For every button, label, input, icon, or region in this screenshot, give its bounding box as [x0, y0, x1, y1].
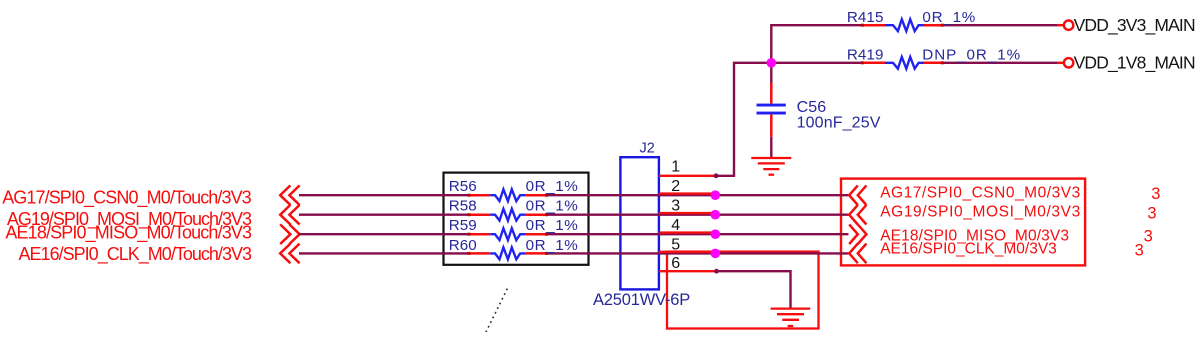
wire row4 right — [547, 233, 849, 235]
svg-text:4: 4 — [671, 217, 680, 234]
pin 2 stub — [659, 192, 715, 194]
off-page connector chevron row2 left — [280, 205, 299, 225]
resistor R58 — [449, 198, 578, 221]
svg-text:0R_1%: 0R_1% — [526, 198, 578, 215]
svg-text:3: 3 — [671, 198, 680, 215]
pin 4 stub — [659, 231, 715, 233]
wire row4 left (pin4 net) — [299, 233, 469, 235]
svg-text:3: 3 — [1135, 242, 1144, 260]
svg-text:A2501WV-6P: A2501WV-6P — [593, 291, 690, 309]
resistor R415 — [847, 9, 975, 31]
wire row5 right — [547, 252, 849, 254]
svg-text:0R_1%: 0R_1% — [922, 9, 975, 26]
wire R419 row — [771, 62, 862, 64]
wire junction down to C56 — [770, 63, 772, 83]
svg-text:AE16/SPI0_CLK_M0/Touch/3V3: AE16/SPI0_CLK_M0/Touch/3V3 — [19, 244, 253, 265]
svg-text:2: 2 — [671, 178, 680, 195]
svg-text:AG17/SPI0_CSN0_M0/3V3: AG17/SPI0_CSN0_M0/3V3 — [880, 185, 1080, 202]
wire pin6 to ground — [716, 271, 791, 307]
wire row3 right — [547, 213, 849, 215]
svg-text:VDD_1V8_MAIN: VDD_1V8_MAIN — [1074, 53, 1196, 74]
svg-text:0R_1%: 0R_1% — [526, 237, 578, 254]
node junction dot — [767, 58, 777, 68]
off-page connector chevron row4 left — [280, 244, 299, 264]
pin 1 stub — [659, 175, 716, 177]
ground (below C56) — [751, 158, 791, 175]
svg-text:R419: R419 — [847, 46, 884, 63]
off-page connector chevron row2 right — [849, 205, 866, 225]
svg-text:AG17/SPI0_CSN0_M0/Touch/3V3: AG17/SPI0_CSN0_M0/Touch/3V3 — [2, 187, 252, 208]
svg-text:AE16/SPI0_CLK_M0/3V3: AE16/SPI0_CLK_M0/3V3 — [880, 240, 1057, 257]
svg-text:6: 6 — [671, 255, 680, 272]
connector J2 body — [620, 157, 659, 289]
wire junction to pin1 of J2 — [716, 63, 771, 176]
off-page connector chevron row3 left (output) — [280, 224, 299, 244]
svg-text:C56: C56 — [797, 99, 827, 116]
svg-text:R58: R58 — [449, 198, 477, 215]
wire R415 to VDD_3V3 terminal — [943, 24, 1057, 26]
svg-text:VDD_3V3_MAIN: VDD_3V3_MAIN — [1074, 15, 1196, 36]
resistor R59 — [449, 217, 578, 240]
capacitor C56 — [757, 83, 881, 137]
junction dot pin2 — [711, 190, 721, 200]
power terminal VDD_1V8_MAIN — [1057, 53, 1196, 74]
svg-text:100nF_25V: 100nF_25V — [797, 115, 881, 132]
resistor R60 — [449, 237, 578, 259]
svg-text:R59: R59 — [449, 217, 477, 234]
svg-text:3: 3 — [1144, 228, 1153, 246]
pin 3 stub — [659, 212, 715, 214]
svg-text:AE18/SPI0_MISO_M0/Touch/3V3: AE18/SPI0_MISO_M0/Touch/3V3 — [5, 223, 252, 244]
svg-text:0R_1%: 0R_1% — [526, 217, 578, 234]
resistor pack box — [444, 173, 589, 265]
wire row3 left (pin3 net) — [299, 213, 469, 215]
wire row5 left (pin5 net) — [299, 252, 469, 254]
resistor R419 — [847, 46, 1020, 68]
power terminal VDD_3V3_MAIN — [1057, 15, 1196, 36]
dotted page boundary line — [486, 289, 507, 332]
svg-text:R60: R60 — [449, 237, 477, 254]
wire row2 right — [547, 194, 849, 196]
resistor R56 — [449, 178, 578, 201]
pin 5 stub — [659, 251, 715, 253]
junction dot pin5 — [711, 249, 721, 259]
wire C56 to ground — [770, 137, 772, 158]
svg-text:R56: R56 — [449, 178, 477, 195]
svg-text:3: 3 — [1147, 205, 1156, 223]
svg-text:1: 1 — [671, 159, 680, 176]
wire row2 left (pin2 net) — [299, 194, 469, 196]
red group box bottom — [667, 252, 819, 329]
ground (bottom, pin6) — [771, 309, 811, 326]
svg-text:3: 3 — [1151, 185, 1160, 203]
svg-text:DNP_0R_1%: DNP_0R_1% — [922, 46, 1020, 63]
node pin6 wire start — [714, 269, 719, 274]
off-page connector chevron row4 right — [849, 244, 866, 264]
off-page connector chevron row3 right (output) — [849, 224, 866, 244]
red group box right — [841, 179, 1085, 266]
svg-text:5: 5 — [671, 236, 680, 253]
node pin1 wire start — [714, 173, 719, 178]
svg-text:AG19/SPI0_MOSI_M0/3V3: AG19/SPI0_MOSI_M0/3V3 — [880, 203, 1080, 220]
junction dot pin4 — [711, 229, 721, 239]
junction dot pin3 — [711, 210, 721, 220]
off-page connector chevron row1 right — [849, 185, 866, 205]
off-page connector chevron row1 left — [280, 185, 299, 205]
svg-text:J2: J2 — [640, 140, 655, 156]
svg-text:R415: R415 — [847, 9, 884, 26]
wire R419 to VDD_1V8 terminal — [943, 62, 1057, 64]
svg-text:0R_1%: 0R_1% — [526, 178, 578, 195]
wire top horizontal to R415 — [771, 25, 862, 63]
pin 6 stub — [659, 270, 716, 272]
